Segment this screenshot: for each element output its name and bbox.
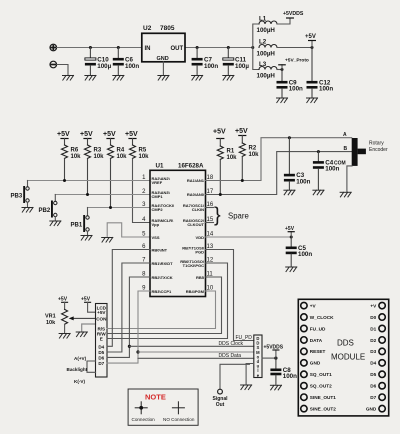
svg-text:+5V: +5V — [305, 34, 316, 40]
ground — [113, 76, 124, 81]
pin SQ_OUT1 — [301, 371, 332, 377]
wire: pin 17 to encoder B — [206, 152, 352, 195]
svg-text:R3: R3 — [94, 148, 102, 154]
node +5V_Proto junction — [281, 68, 284, 71]
svg-text:100µH: 100µH — [257, 27, 276, 34]
svg-text:100n: 100n — [289, 86, 303, 93]
pin RESET — [301, 348, 326, 354]
svg-text:RB1\RX\DT: RB1\RX\DT — [152, 261, 174, 266]
svg-text:100n: 100n — [298, 251, 312, 258]
svg-text:A: A — [343, 132, 347, 138]
svg-text:NOTE: NOTE — [145, 393, 166, 402]
module DDS MODULE pinout box — [298, 299, 388, 416]
svg-text:+5V: +5V — [213, 129, 226, 136]
node DDS clock junction — [128, 345, 131, 348]
svg-text:+5V: +5V — [58, 297, 68, 303]
wire: DDS Data line — [138, 357, 254, 359]
pin label RB3 — [152, 289, 173, 294]
resistor R5 — [130, 145, 150, 160]
rotary encoder S1 — [334, 132, 388, 167]
ground — [223, 76, 234, 81]
svg-text:A(+V): A(+V) — [74, 356, 87, 361]
svg-text:100n: 100n — [325, 166, 339, 173]
node L branch junction — [251, 46, 254, 49]
pin label RB5 — [196, 275, 205, 280]
power +5V (LCD) — [81, 297, 91, 303]
symbol no connection (cross) — [172, 402, 184, 414]
svg-text:DDS Clock: DDS Clock — [219, 341, 244, 347]
svg-text:+5V_Proto: +5V_Proto — [285, 57, 309, 63]
svg-text:RA1\AN1: RA1\AN1 — [187, 178, 205, 183]
power +5V (R2) — [235, 128, 248, 143]
wire: pin 15 stub — [206, 222, 214, 224]
switch PB2 — [39, 195, 58, 221]
power +5V — [305, 34, 316, 47]
pin D0 (right col) — [370, 314, 385, 320]
svg-text:100µ: 100µ — [235, 63, 249, 70]
wire: L1 to +5VDDS — [277, 18, 290, 24]
ground — [59, 334, 70, 339]
pin label RB7 — [182, 245, 205, 254]
svg-text:CMP2: CMP2 — [152, 207, 164, 212]
wire: R5 to pin 4 (RA5/MCLR) — [133, 159, 151, 223]
svg-text:100n: 100n — [283, 373, 297, 380]
svg-text:D6: D6 — [98, 355, 104, 360]
svg-text:+5VDDS: +5VDDS — [264, 344, 284, 350]
pin D1 (right col) — [370, 325, 385, 331]
pin W_CLOCK — [301, 314, 334, 320]
svg-text:DDS Data: DDS Data — [219, 353, 242, 359]
power +5V (VDD) — [285, 226, 295, 237]
power +5VDDS — [283, 11, 304, 18]
capacitor C12 — [307, 48, 334, 98]
wire: - terminal to ground — [57, 65, 68, 76]
pin D4 (right col) — [370, 360, 385, 366]
svg-text:100n: 100n — [296, 178, 310, 185]
pin label RB0 — [152, 248, 168, 253]
node R4/pin3 junction — [109, 206, 112, 209]
svg-text:RB3\CCP1: RB3\CCP1 — [152, 289, 173, 294]
power input - terminal — [50, 61, 57, 68]
resistor R2 — [239, 143, 259, 181]
svg-text:+5VDDS: +5VDDS — [283, 11, 304, 17]
op... chip U1 16F628A — [150, 163, 206, 297]
svg-text:GND: GND — [366, 406, 377, 411]
svg-text:B: B — [344, 146, 348, 152]
node VDD junction — [290, 236, 293, 239]
wire: branch to L3 — [253, 48, 259, 70]
pin label RB4 — [186, 289, 205, 294]
svg-text:CLKIN: CLKIN — [192, 207, 204, 212]
svg-text:10k: 10k — [227, 155, 238, 161]
capacitor C5 — [286, 237, 313, 267]
svg-text:R2: R2 — [249, 146, 257, 152]
svg-text:VDD: VDD — [196, 235, 205, 240]
connector DDS Module header — [254, 335, 262, 378]
svg-text:GND: GND — [310, 361, 321, 366]
svg-text:}: } — [214, 205, 221, 227]
svg-text:Encoder: Encoder — [369, 147, 388, 153]
svg-text:VREF: VREF — [152, 180, 163, 185]
pin label RA0 — [187, 192, 205, 197]
capacitor C10 — [85, 48, 112, 76]
svg-text:D2: D2 — [370, 338, 376, 343]
wire: shared data line to connector — [138, 351, 254, 353]
capacitor C11 — [223, 48, 250, 76]
svg-text:T1CKI\PGC: T1CKI\PGC — [183, 263, 204, 268]
svg-text:VSS: VSS — [152, 235, 160, 240]
svg-text:10k: 10k — [117, 154, 128, 160]
svg-text:R1: R1 — [227, 149, 235, 155]
svg-text:R6: R6 — [71, 148, 79, 154]
wire: L2 to +5V node — [277, 47, 312, 49]
pin label RA6 — [183, 218, 205, 227]
wire: +5VDDS stub — [262, 357, 276, 359]
svg-text:+5V: +5V — [103, 131, 116, 138]
wire: branch to L1 — [253, 24, 259, 48]
pin D7 (right col) — [370, 394, 385, 400]
pin GND — [301, 360, 321, 366]
pin label RB1 — [152, 261, 174, 266]
ground — [85, 76, 96, 81]
svg-text:PB3: PB3 — [11, 194, 23, 200]
svg-text:K(-V): K(-V) — [74, 379, 85, 384]
svg-text:DDS: DDS — [337, 339, 354, 348]
svg-text:L2: L2 — [259, 39, 267, 46]
wire: pin 3 row — [88, 207, 151, 209]
svg-text:10k: 10k — [46, 320, 56, 326]
pin D5 (right col) — [370, 371, 385, 377]
wire: +5V to LCD — [88, 302, 96, 312]
pin SQ_OUT2 — [301, 383, 332, 389]
ground — [284, 190, 295, 195]
pin label RB2 — [152, 275, 173, 280]
svg-text:100n: 100n — [204, 63, 218, 70]
svg-text:L3: L3 — [259, 61, 267, 68]
wire: pin 2 row — [55, 194, 150, 196]
svg-text:MODULE: MODULE — [331, 353, 365, 362]
wire: pin 1 row — [28, 180, 151, 182]
svg-text:+5V: +5V — [57, 131, 70, 138]
node C10 junction — [89, 46, 92, 49]
label Signal Out — [212, 396, 228, 408]
node +5V junction — [311, 46, 314, 49]
pin label RA4 — [152, 203, 175, 212]
pin label RA1 — [187, 178, 205, 183]
node DDS data junction — [136, 350, 139, 353]
svg-text:D6: D6 — [370, 384, 376, 389]
svg-text:SINE_OUT1: SINE_OUT1 — [310, 395, 336, 400]
svg-text:RB5: RB5 — [196, 275, 205, 280]
svg-text:+5V: +5V — [81, 297, 91, 303]
svg-text:100µ: 100µ — [97, 63, 111, 70]
svg-text:Vpp: Vpp — [152, 222, 160, 227]
wire: U2 ground pin — [162, 62, 164, 75]
inductor L1 — [259, 21, 277, 24]
wire: LCD R/W to pin 11 — [107, 277, 222, 334]
svg-text:RB2\TX\CK: RB2\TX\CK — [152, 275, 173, 280]
svg-text:D4: D4 — [370, 361, 376, 366]
wire: pin 8 to LCD D6 — [107, 277, 150, 357]
svg-text:PGD: PGD — [195, 249, 204, 254]
node R6/pin1 junction — [63, 179, 66, 182]
ground — [22, 208, 33, 213]
wire: main +V rail — [57, 47, 142, 49]
svg-text:PB1: PB1 — [71, 223, 83, 229]
svg-text:+5V: +5V — [97, 310, 106, 315]
node R1/pin17 junction — [219, 193, 222, 196]
ground — [50, 221, 61, 226]
capacitor C6 — [113, 48, 140, 76]
svg-text:R5: R5 — [139, 148, 147, 154]
svg-text:E: E — [100, 337, 103, 342]
ground — [81, 236, 92, 241]
svg-text:OUT: OUT — [171, 46, 184, 52]
ground — [158, 76, 169, 81]
ground — [102, 238, 113, 243]
capacitor C9 — [277, 70, 304, 98]
capacitor C4 — [313, 152, 340, 190]
pin +V (right col) — [370, 302, 385, 308]
ground — [63, 76, 74, 81]
svg-text:L1: L1 — [259, 16, 267, 23]
power +5VDDS — [264, 344, 284, 358]
regulator U2 7805 — [142, 25, 185, 62]
node +5VDDS junction — [274, 357, 277, 360]
wire: VSS jog to ground — [107, 223, 150, 237]
wire: pin 9 to LCD D7 — [107, 291, 150, 363]
svg-text:DATA: DATA — [310, 338, 323, 343]
svg-text:VR1: VR1 — [45, 314, 56, 320]
svg-text:D0: D0 — [370, 315, 376, 320]
svg-text:W_CLOCK: W_CLOCK — [310, 315, 334, 320]
svg-text:COM: COM — [334, 161, 346, 167]
svg-text:D7: D7 — [98, 361, 104, 366]
ground — [313, 190, 324, 195]
svg-text:+V: +V — [370, 303, 377, 308]
pin DATA — [301, 337, 323, 343]
svg-text:Spare: Spare — [228, 212, 249, 221]
svg-text:SQ_OUT1: SQ_OUT1 — [310, 372, 332, 377]
svg-text:10k: 10k — [249, 152, 260, 158]
wire: pin 14 VDD to +5V — [206, 236, 292, 238]
svg-text:RESET: RESET — [310, 349, 326, 354]
svg-text:+5V: +5V — [235, 128, 248, 135]
terminal signal out — [218, 389, 223, 394]
svg-text:U2: U2 — [143, 25, 152, 32]
wire: signal out — [220, 364, 249, 389]
svg-text:SINE_OUT2: SINE_OUT2 — [310, 406, 336, 411]
svg-text:+5V: +5V — [80, 131, 93, 138]
pin SINE_OUT1 — [301, 394, 337, 400]
ground — [241, 385, 252, 390]
resistor R1 — [217, 146, 237, 195]
wire: VR1 wiper to LCD CON — [69, 316, 96, 320]
node R3/pin2 junction — [86, 193, 89, 196]
svg-text:16F628A: 16F628A — [178, 163, 204, 170]
svg-text:Out: Out — [216, 402, 225, 408]
power +5V (R3) — [80, 131, 93, 145]
svg-text:100n: 100n — [125, 63, 139, 70]
pin label RB6 — [180, 259, 205, 268]
svg-text:10k: 10k — [94, 154, 105, 160]
svg-text:CMP1: CMP1 — [152, 194, 164, 199]
svg-text:10k: 10k — [139, 154, 150, 160]
pin SINE_OUT2 — [301, 405, 337, 411]
wire: LCD R/S to pin 10 — [107, 291, 216, 329]
ground — [307, 98, 318, 103]
pin GND (right col) — [366, 405, 385, 411]
svg-text:CLKOUT: CLKOUT — [187, 222, 204, 227]
node R2/pin18 junction — [241, 179, 244, 182]
svg-text:Rotary: Rotary — [369, 141, 384, 147]
svg-text:D3: D3 — [370, 349, 376, 354]
wire: L3 to +5V_Proto node — [277, 69, 282, 71]
wire: connector gnd pin — [246, 364, 254, 385]
svg-text:U1: U1 — [156, 163, 164, 170]
svg-text:D5: D5 — [370, 372, 376, 377]
node C7 junction — [196, 46, 199, 49]
power +5V (VR1) — [58, 297, 68, 310]
pin +V — [301, 302, 317, 308]
power +5V (R4) — [103, 131, 116, 145]
svg-text:D1: D1 — [370, 326, 376, 331]
svg-text:+V: +V — [310, 303, 317, 308]
svg-text:RA0\AN0: RA0\AN0 — [187, 192, 205, 197]
switch PB1 — [71, 208, 90, 236]
svg-text:100µH: 100µH — [257, 73, 276, 80]
svg-text:GND: GND — [157, 56, 169, 62]
wire: LCD ground pin — [82, 324, 96, 332]
pin label RA7 — [183, 203, 205, 212]
connector LCD — [96, 304, 108, 378]
ground — [192, 76, 203, 81]
svg-text:+5V: +5V — [285, 226, 295, 232]
wire: pin 18 to encoder A — [206, 138, 352, 181]
pin D6 (right col) — [370, 383, 385, 389]
pin FU_UD — [301, 325, 326, 331]
power +5V (R5) — [125, 131, 138, 145]
node C4 junction — [317, 150, 320, 153]
wire: pin 7 to LCD D5 — [107, 263, 150, 352]
svg-text:IN: IN — [145, 46, 151, 52]
pin label RA5 — [152, 218, 175, 227]
svg-text:RB4\PGM: RB4\PGM — [186, 289, 205, 294]
ground — [340, 192, 351, 197]
pin label VDD — [196, 235, 205, 240]
svg-text:10k: 10k — [71, 154, 82, 160]
power +5V_Proto — [279, 57, 309, 69]
svg-text:RB0\INT: RB0\INT — [152, 248, 168, 253]
svg-text:Connection: Connection — [132, 417, 156, 422]
potentiometer VR1 — [45, 309, 68, 333]
wire: pin 6 to LCD D4 — [107, 250, 150, 347]
symbol connection (dot) — [135, 402, 147, 414]
resistor R6 — [62, 145, 82, 181]
pin D3 (right col) — [370, 348, 385, 354]
svg-text:7805: 7805 — [160, 25, 175, 32]
resistor R4 — [108, 145, 128, 208]
wire: 7805 output rail — [185, 47, 253, 49]
pin label VSS — [152, 235, 160, 240]
svg-text:100µH: 100µH — [257, 51, 276, 58]
svg-text:Backlight: Backlight — [67, 367, 88, 372]
wire: DDS Clock line — [129, 345, 253, 347]
switch PB3 — [11, 181, 30, 208]
svg-text:100n: 100n — [319, 86, 333, 93]
wire: encoder COM to ground — [347, 166, 352, 192]
capacitor C3 — [284, 138, 311, 190]
power +5V (R6) — [57, 131, 70, 145]
ground — [76, 332, 87, 337]
pin label RA2 — [152, 176, 171, 185]
pin D2 (right col) — [370, 337, 385, 343]
svg-text:R4: R4 — [117, 148, 125, 154]
resistor R3 — [85, 145, 105, 195]
note box — [128, 389, 198, 425]
inductor L2 — [259, 45, 277, 48]
svg-text:D5: D5 — [98, 350, 104, 355]
node C11 junction — [227, 46, 230, 49]
pin label RA3 — [152, 190, 171, 199]
wire: LCD backlight A/K — [87, 361, 96, 372]
svg-text:FU_UD: FU_UD — [310, 326, 326, 331]
wire: LCD E to pin 12 — [107, 263, 228, 339]
ground — [270, 385, 281, 390]
ground — [277, 98, 288, 103]
capacitor C8 — [270, 358, 297, 385]
power +5V (R1) — [213, 129, 226, 147]
svg-text:SQ_OUT2: SQ_OUT2 — [310, 384, 332, 389]
svg-text:NO Connection: NO Connection — [163, 417, 195, 422]
svg-text:CON: CON — [96, 316, 107, 321]
svg-text:D7: D7 — [370, 395, 376, 400]
svg-text:D4: D4 — [98, 344, 104, 349]
ground — [286, 267, 297, 272]
inductor L3 — [259, 67, 277, 70]
wire: pin 13 to FU_PD — [206, 250, 254, 341]
svg-text:PB2: PB2 — [39, 208, 51, 214]
capacitor C7 — [192, 48, 219, 76]
node C6 junction — [117, 46, 120, 49]
svg-text:+5V: +5V — [125, 131, 138, 138]
wire: pin 16 stub — [206, 207, 214, 209]
power input + terminal — [50, 44, 57, 51]
node C3 junction — [288, 136, 291, 139]
